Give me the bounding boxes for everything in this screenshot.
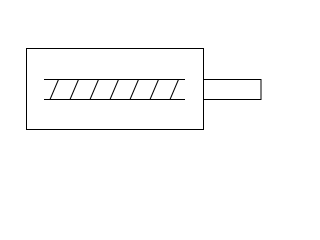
thread hatch 4	[110, 80, 119, 100]
thread hatch 5	[130, 80, 139, 100]
thread hatch 3	[90, 80, 99, 100]
thread hatch 1	[50, 80, 59, 100]
thread hatch 7	[170, 80, 179, 100]
cylinder body	[27, 49, 204, 130]
screw thread top line	[44, 79, 185, 81]
thread hatch 2	[70, 80, 79, 100]
thread hatch 6	[150, 80, 159, 100]
piston rod	[204, 80, 262, 100]
screw thread bottom line	[44, 99, 185, 101]
